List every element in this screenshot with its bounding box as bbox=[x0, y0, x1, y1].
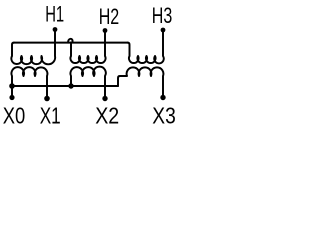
winding W4 (secondary, phase A) bbox=[11, 67, 47, 96]
svg-text:X0: X0 bbox=[3, 102, 26, 128]
svg-text:X1: X1 bbox=[40, 103, 61, 129]
wire crossover curl at W2 left bbox=[68, 39, 72, 43]
terminal dot X0 bbox=[9, 95, 14, 100]
winding W5 (secondary, phase B) bbox=[70, 67, 105, 96]
svg-text:X3: X3 bbox=[152, 103, 176, 129]
winding W1 (primary, phase A) bbox=[11, 30, 55, 64]
winding W6 (secondary, phase C) bbox=[118, 67, 163, 95]
wire X0 stub bbox=[11, 86, 13, 96]
winding W3 (primary, phase C) bbox=[128, 30, 164, 63]
terminal dot X3 bbox=[160, 95, 165, 100]
terminal dot H2 bbox=[103, 28, 108, 33]
svg-text:H1: H1 bbox=[45, 2, 64, 27]
terminal dot H1 bbox=[53, 27, 58, 32]
svg-text:X2: X2 bbox=[95, 103, 119, 129]
junction node W5-neutral bbox=[68, 83, 73, 88]
junction node X0 on neutral bus bbox=[9, 83, 15, 89]
terminal dot H3 bbox=[161, 28, 166, 33]
wire bottom neutral bus bbox=[12, 85, 118, 87]
wire top bus bbox=[14, 42, 128, 44]
terminal dot X1 bbox=[44, 96, 50, 102]
terminal dot X2 bbox=[102, 96, 107, 101]
svg-text:H3: H3 bbox=[152, 3, 173, 28]
winding W2 (primary, phase B) bbox=[70, 31, 105, 64]
svg-text:H2: H2 bbox=[99, 4, 120, 29]
